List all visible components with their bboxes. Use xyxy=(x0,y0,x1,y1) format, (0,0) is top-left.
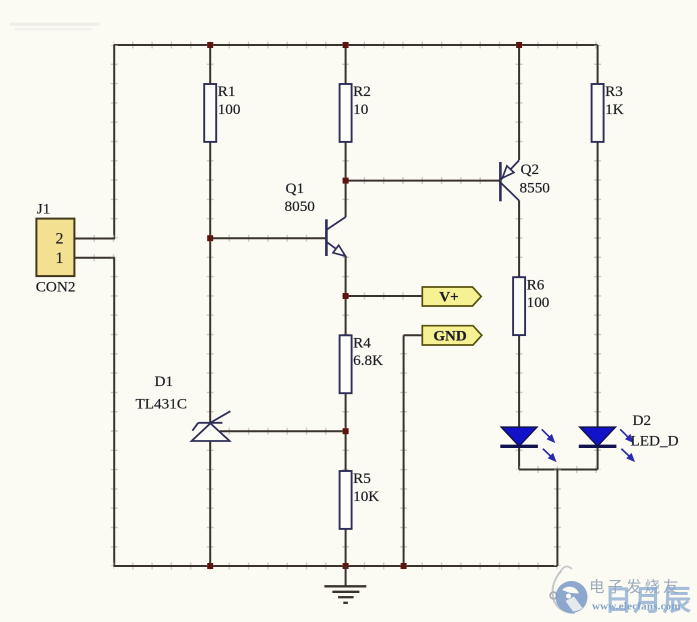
svg-text:J1: J1 xyxy=(37,201,51,218)
wire R2 bottom to Q2 node xyxy=(342,142,349,181)
svg-text:100: 100 xyxy=(527,294,550,311)
node top rail / Q2 (junction) xyxy=(516,42,522,48)
svg-text:R6: R6 xyxy=(527,276,545,293)
wire V+ stub xyxy=(346,293,423,300)
wire D1 reference xyxy=(220,428,346,435)
wire right border top xyxy=(594,45,601,84)
node bottom rail / ground (junction) xyxy=(343,563,349,569)
wire Q1 emitter to V+ node xyxy=(342,256,349,296)
svg-text:10K: 10K xyxy=(353,488,379,505)
diode D1 (TL431C shunt reference) xyxy=(136,373,231,441)
connector J1 (CON2) xyxy=(36,201,76,296)
svg-text:Q1: Q1 xyxy=(286,180,305,197)
wire R1 top xyxy=(207,45,214,84)
wire R1 bottom to base node xyxy=(207,142,214,239)
wire left border upper xyxy=(111,45,118,239)
node top rail / R2 (junction) xyxy=(343,42,349,48)
svg-text:R1: R1 xyxy=(218,83,236,100)
wire J1 pin 2 stub xyxy=(75,235,116,242)
watermark logo and text (site mark) xyxy=(550,566,692,617)
resistor R3 xyxy=(592,83,624,142)
resistor R2 xyxy=(340,83,371,142)
transistor Q1 (NPN 8050) xyxy=(285,180,346,256)
wire base node to D1 xyxy=(207,239,214,424)
wire LED2 cathode xyxy=(594,446,601,469)
svg-text:100: 100 xyxy=(218,101,241,118)
wire GND tap xyxy=(400,335,407,566)
resistor R6 xyxy=(513,276,550,335)
node V+ tap (junction) xyxy=(343,293,349,299)
node D1 ref / R4-R5 (junction) xyxy=(343,428,349,434)
wire LED bottom wire xyxy=(519,466,598,473)
ground symbol xyxy=(324,566,366,603)
wire R5 to bottom rail xyxy=(342,529,349,566)
wire R3 to LED2 xyxy=(594,142,601,428)
node R2 / Q2 base (junction) xyxy=(343,178,349,184)
svg-text:D2: D2 xyxy=(633,412,652,429)
svg-text:D1: D1 xyxy=(155,373,174,390)
transistor Q2 (PNP 8550) xyxy=(500,160,550,201)
svg-text:6.8K: 6.8K xyxy=(353,352,383,369)
wire Q2 emitter to top rail xyxy=(516,45,523,160)
svg-text:10: 10 xyxy=(353,101,369,118)
resistor R1 xyxy=(204,83,241,142)
svg-text:R3: R3 xyxy=(605,83,623,100)
wire Q2 base xyxy=(346,177,501,184)
node bottom rail / D1 (junction) xyxy=(207,563,213,569)
svg-text:CON2: CON2 xyxy=(36,279,76,296)
wire top rail xyxy=(114,42,598,49)
svg-text:Q2: Q2 xyxy=(521,161,540,178)
node top rail / R1 (junction) xyxy=(207,42,213,48)
wire bottom rail xyxy=(114,563,558,570)
svg-text:8050: 8050 xyxy=(285,198,316,215)
wire D1 anode to bottom rail xyxy=(207,441,214,566)
svg-text:8550: 8550 xyxy=(520,180,551,197)
svg-text:LED_D: LED_D xyxy=(631,433,679,450)
wire left border lower xyxy=(111,258,118,566)
wire R4 to ref node xyxy=(342,393,349,431)
svg-text:1K: 1K xyxy=(605,101,624,118)
svg-text:TL431C: TL431C xyxy=(136,396,187,413)
wire Q2 collector to R6 xyxy=(516,201,523,278)
resistor R5 xyxy=(340,470,380,529)
svg-text:GND: GND xyxy=(433,328,467,344)
power flag V+ xyxy=(422,287,481,306)
svg-text:R5: R5 xyxy=(353,470,371,487)
faint top-left watermark remnant xyxy=(10,23,100,31)
svg-text:R2: R2 xyxy=(353,83,371,100)
wire Q2 node to Q1 collector xyxy=(342,181,349,217)
LED D2a xyxy=(500,427,556,462)
wire R2 top xyxy=(342,45,349,84)
svg-text:R4: R4 xyxy=(353,335,371,352)
wire LED1 cathode xyxy=(516,446,523,469)
LED D2b and D2 labels xyxy=(579,412,679,462)
svg-text:1: 1 xyxy=(56,250,64,267)
svg-text:2: 2 xyxy=(56,231,64,248)
resistor R4 xyxy=(340,335,383,394)
node R1 / Q1 base (junction) xyxy=(207,235,213,241)
wire ref node to R5 xyxy=(342,431,349,471)
wire LED tap to bottom rail xyxy=(554,470,561,567)
wire J1 pin 1 stub xyxy=(75,254,116,261)
power flag GND xyxy=(422,326,482,345)
wire Q1 base xyxy=(210,235,326,242)
node bottom rail / GND tap (junction) xyxy=(401,563,407,569)
svg-text:日月辰: 日月辰 xyxy=(604,586,692,617)
wire R6 to LED1 xyxy=(516,335,523,427)
wire V+ node to R4 xyxy=(342,296,349,335)
wire GND stub xyxy=(404,332,423,339)
svg-text:V+: V+ xyxy=(439,290,458,306)
